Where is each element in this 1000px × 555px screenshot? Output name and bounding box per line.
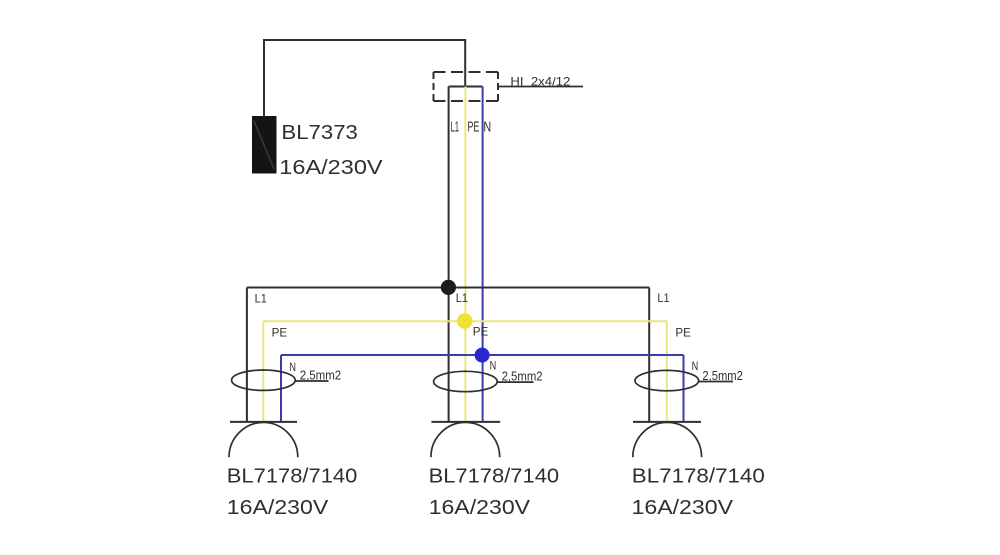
wire PE bus horizontal (yellow) bbox=[263, 320, 667, 322]
svg-text:16A/230V: 16A/230V bbox=[429, 496, 531, 519]
svg-text:16A/230V: 16A/230V bbox=[632, 496, 734, 519]
lamp ceiling line middle bbox=[431, 421, 500, 423]
leader line 2,5mm2 left bbox=[295, 380, 328, 382]
node PE junction (yellow dot) bbox=[457, 313, 473, 329]
lamp dome left bbox=[229, 422, 298, 457]
wire L1 middle drop (black) bbox=[448, 87, 450, 422]
svg-text:BL7178/7140: BL7178/7140 bbox=[227, 464, 357, 487]
wire feed from BL7373 up and across to junction box bbox=[264, 40, 465, 116]
wire L1 left drop bbox=[246, 288, 248, 422]
lamp ceiling line left bbox=[230, 421, 297, 423]
svg-text:16A/230V: 16A/230V bbox=[227, 496, 329, 519]
svg-text:2,5mm2: 2,5mm2 bbox=[702, 368, 743, 383]
svg-text:HI 2x4/12: HI 2x4/12 bbox=[510, 74, 570, 88]
wire N middle drop (blue) bbox=[482, 87, 484, 422]
wire PE left drop (yellow) bbox=[262, 321, 264, 422]
wire PE middle drop (yellow) bbox=[464, 87, 466, 422]
diagonal mark inside BL7373 block bbox=[254, 121, 274, 169]
junction box HI (dashed outline) left edge bbox=[433, 72, 435, 101]
lamp outlet ellipse right bbox=[635, 370, 699, 390]
wire N bus horizontal (blue) bbox=[281, 354, 684, 356]
wire N right drop (blue) bbox=[683, 355, 685, 422]
svg-text:16A/230V: 16A/230V bbox=[279, 156, 383, 179]
junction box HI (dashed outline) top edge bbox=[434, 71, 499, 73]
svg-text:BL7373: BL7373 bbox=[281, 121, 358, 144]
svg-text:PE: PE bbox=[675, 325, 691, 339]
leader line 2,5mm2 middle bbox=[497, 381, 533, 383]
svg-text:BL7178/7140: BL7178/7140 bbox=[632, 464, 765, 487]
wire PE right drop (yellow) bbox=[666, 321, 668, 422]
wire L1 bus horizontal (black) bbox=[247, 287, 649, 289]
svg-text:N: N bbox=[483, 119, 491, 135]
leader line for HI label bbox=[498, 86, 583, 88]
node N junction (blue dot) bbox=[475, 348, 490, 363]
wire L1 right drop bbox=[648, 288, 650, 422]
cable top bar (junction box terminal bar) bbox=[449, 86, 483, 88]
svg-text:PE: PE bbox=[473, 324, 489, 338]
svg-text:BL7178/7140: BL7178/7140 bbox=[429, 464, 559, 487]
svg-text:PE: PE bbox=[272, 325, 288, 339]
svg-text:N: N bbox=[490, 359, 497, 373]
junction box HI (dashed outline) right edge bbox=[497, 72, 499, 101]
svg-text:N: N bbox=[692, 359, 699, 373]
junction box HI (dashed outline) bottom edge bbox=[434, 100, 499, 102]
svg-text:PE: PE bbox=[468, 119, 480, 135]
lamp outlet ellipse middle bbox=[434, 371, 498, 391]
svg-text:N: N bbox=[289, 360, 296, 374]
svg-text:2,5mm2: 2,5mm2 bbox=[300, 367, 342, 382]
svg-text:L1: L1 bbox=[657, 291, 669, 305]
lamp dome middle bbox=[431, 422, 500, 457]
svg-text:2,5mm2: 2,5mm2 bbox=[502, 369, 543, 384]
switch/appliance BL7373 (black block symbol) bbox=[252, 116, 277, 174]
lamp outlet ellipse left bbox=[232, 370, 296, 390]
lamp ceiling line right bbox=[633, 421, 701, 423]
wire N left drop (blue) bbox=[280, 355, 282, 422]
svg-text:L1: L1 bbox=[255, 292, 267, 306]
leader line 2,5mm2 right bbox=[699, 381, 733, 383]
svg-text:L1: L1 bbox=[451, 119, 460, 135]
node L1 junction (black dot) bbox=[441, 280, 456, 295]
svg-text:L1: L1 bbox=[456, 291, 468, 305]
lamp dome right bbox=[633, 422, 702, 457]
